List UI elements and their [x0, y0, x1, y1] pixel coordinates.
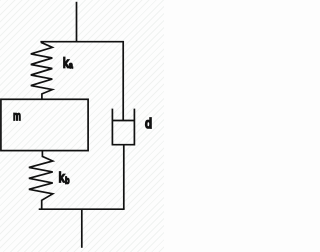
svg-text:a: a	[69, 60, 73, 70]
spring ka	[31, 42, 53, 100]
damper cylinder cup	[112, 109, 134, 145]
label ka	[63, 54, 73, 70]
spring kb	[29, 151, 53, 210]
wire top horizontal	[40, 41, 124, 43]
damper piston plate	[112, 120, 134, 122]
svg-text:b: b	[65, 176, 69, 186]
svg-text:d: d	[145, 116, 152, 132]
damper rod upper	[122, 41, 124, 120]
svg-text:k: k	[59, 169, 65, 185]
wire bottom horizontal	[39, 208, 125, 210]
label kb	[59, 169, 70, 186]
wire top vertical	[76, 2, 78, 43]
mass m box	[1, 99, 88, 150]
wire bottom vertical	[81, 209, 83, 248]
svg-text:m: m	[13, 110, 21, 124]
damper rod lower	[123, 145, 125, 210]
